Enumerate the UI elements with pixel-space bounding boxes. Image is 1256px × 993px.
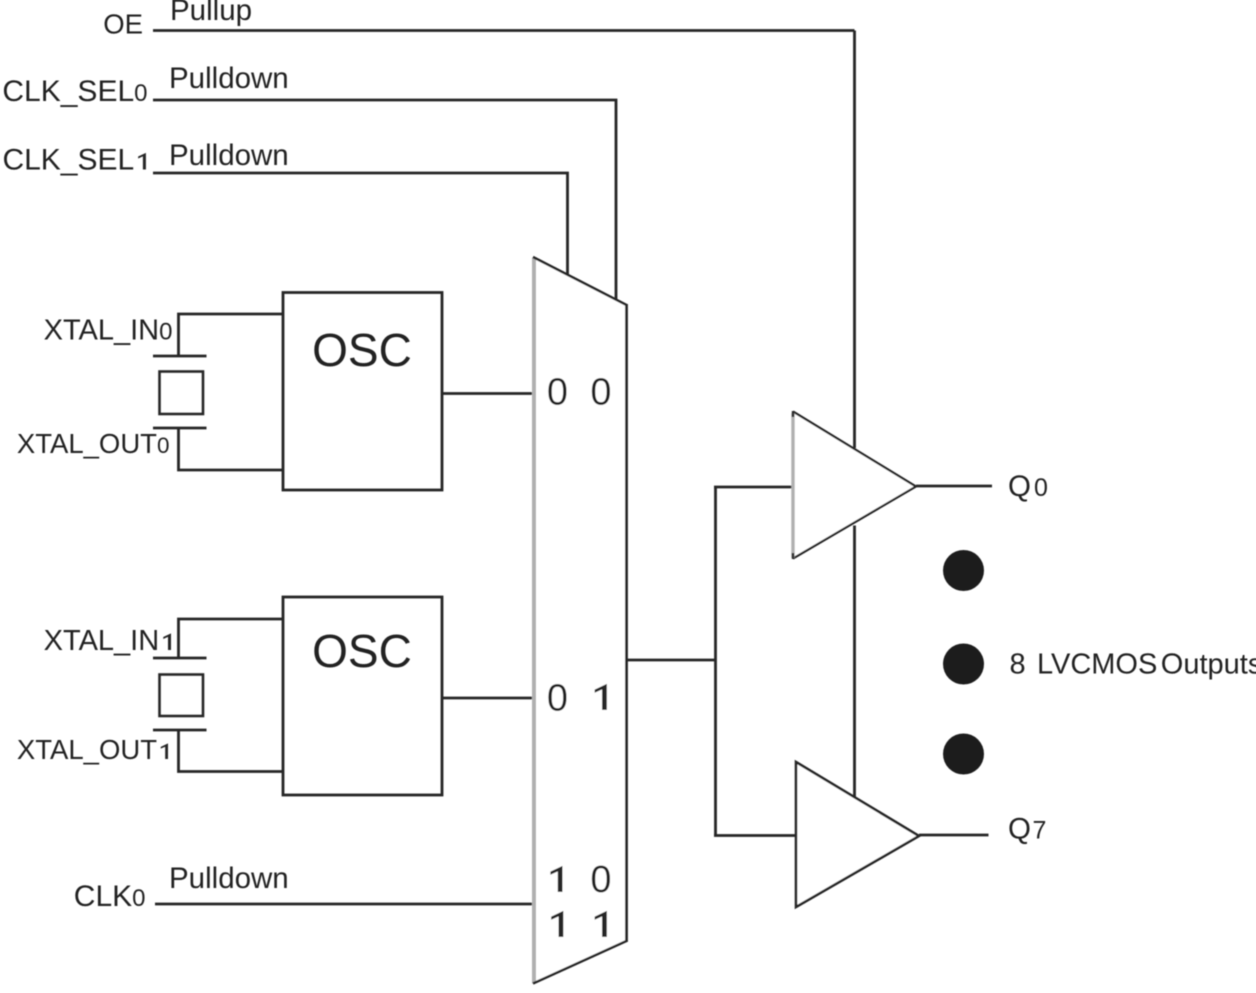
- crystal X0 bottom plate: [153, 427, 207, 430]
- wire XTAL_IN1: [179, 619, 284, 657]
- svg-text:0: 0: [590, 859, 611, 901]
- wire XTAL_OUT0: [179, 428, 284, 470]
- mux M1 left edge (gray): [532, 258, 536, 984]
- svg-text:LVCMOS: LVCMOS: [1037, 649, 1157, 681]
- wire output bus vertical: [714, 487, 717, 836]
- mux M1 right edge: [625, 304, 628, 942]
- wire CLK_SEL0: [153, 100, 616, 301]
- ellipsis dot 2: [943, 644, 984, 685]
- mux M1 top edge: [533, 257, 627, 305]
- wire branch to buffer Q0: [714, 486, 793, 489]
- svg-text:OSC: OSC: [312, 625, 412, 677]
- wire mux output: [627, 659, 716, 662]
- crystal X1 top plate: [153, 657, 207, 660]
- mux M1 bottom edge: [533, 941, 628, 984]
- wire OE vertical lower: [853, 526, 856, 798]
- wire OE vertical upper: [853, 31, 856, 449]
- svg-text:0: 0: [547, 678, 568, 720]
- svg-text:CLK_SEL0: CLK_SEL0: [2, 75, 147, 108]
- wire CLK0: [155, 903, 533, 906]
- wire Q0 output: [916, 485, 992, 488]
- wire branch to buffer Q7: [714, 834, 796, 837]
- crystal X1 bottom plate: [153, 729, 207, 732]
- mux select code 1 0: [550, 866, 562, 892]
- svg-text:OE: OE: [103, 9, 143, 40]
- svg-text:Outputs: Outputs: [1161, 649, 1256, 681]
- crystal X1 body: [160, 675, 204, 717]
- svg-text:0: 0: [547, 372, 568, 414]
- ellipsis dot 1: [943, 550, 984, 591]
- svg-text:0: 0: [1034, 474, 1048, 502]
- svg-text:8: 8: [1010, 649, 1026, 681]
- svg-text:XTAL_OUT0: XTAL_OUT0: [17, 428, 170, 459]
- wire OSC0 output: [442, 392, 533, 395]
- wire Q7 output: [919, 834, 989, 837]
- crystal X0 top plate: [153, 355, 207, 358]
- oscillator block OSC1: [283, 597, 442, 795]
- svg-text:Pulldown: Pulldown: [169, 62, 289, 95]
- mux M1 body: [534, 258, 626, 984]
- svg-text:XTAL_OUT: XTAL_OUT: [17, 734, 157, 765]
- wire OSC1 output: [442, 697, 533, 700]
- wire XTAL_OUT1: [179, 730, 284, 772]
- wire OE horizontal: [153, 29, 855, 32]
- svg-text:XTAL_IN0: XTAL_IN0: [44, 315, 173, 347]
- svg-text:Q: Q: [1008, 813, 1031, 846]
- mux select code 1 1: [551, 911, 563, 937]
- svg-text:CLK_SEL: CLK_SEL: [2, 144, 134, 177]
- svg-text:XTAL_IN: XTAL_IN: [44, 625, 160, 657]
- svg-text:Q: Q: [1008, 470, 1031, 503]
- wire XTAL_IN0: [179, 314, 284, 355]
- svg-text:7: 7: [1033, 817, 1047, 845]
- svg-text:CLK0: CLK0: [74, 880, 146, 913]
- output buffer Q0: [793, 412, 916, 559]
- svg-text:Pulldown: Pulldown: [169, 139, 289, 172]
- output buffer Q7: [796, 762, 919, 907]
- svg-text:Pullup: Pullup: [170, 0, 252, 27]
- svg-text:0: 0: [590, 372, 611, 414]
- oscillator block OSC0: [283, 293, 442, 491]
- wire CLK_SEL1: [153, 173, 568, 275]
- svg-text:OSC: OSC: [312, 324, 412, 376]
- crystal X0 body: [160, 372, 204, 415]
- svg-text:Pulldown: Pulldown: [169, 862, 289, 895]
- ellipsis dot 3: [943, 734, 984, 775]
